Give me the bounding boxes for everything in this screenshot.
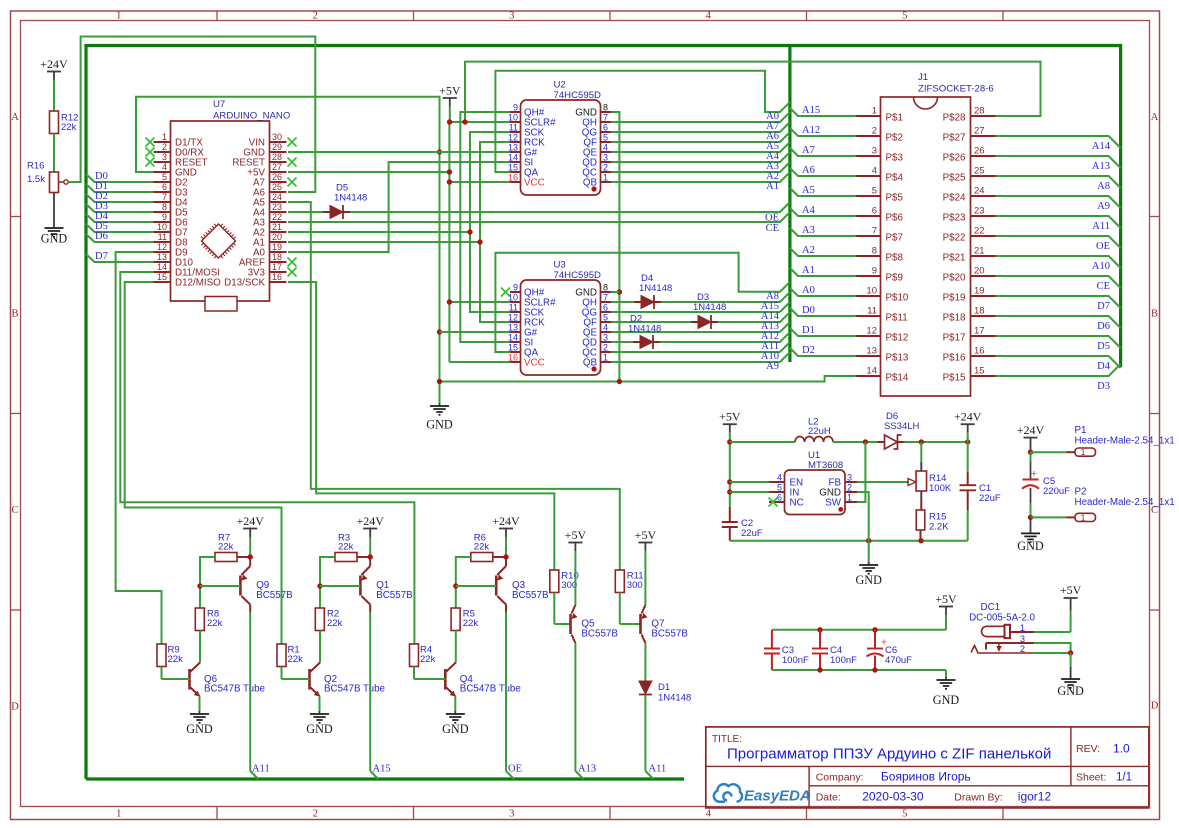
svg-text:BC557B: BC557B bbox=[256, 590, 293, 601]
svg-text:5: 5 bbox=[777, 483, 782, 493]
svg-text:8: 8 bbox=[603, 283, 608, 293]
svg-text:D13/SCK: D13/SCK bbox=[224, 278, 265, 289]
svg-text:22k: 22k bbox=[218, 542, 234, 553]
svg-text:BC557B: BC557B bbox=[651, 629, 688, 640]
svg-text:1: 1 bbox=[162, 132, 167, 142]
svg-text:3: 3 bbox=[603, 153, 608, 163]
svg-text:3: 3 bbox=[1020, 634, 1025, 644]
svg-text:11: 11 bbox=[158, 232, 167, 242]
svg-text:14: 14 bbox=[866, 366, 877, 377]
svg-text:U2: U2 bbox=[554, 80, 566, 91]
svg-text:1: 1 bbox=[1081, 447, 1086, 457]
svg-text:21: 21 bbox=[272, 222, 282, 232]
svg-text:Header-Male-2.54_1x1: Header-Male-2.54_1x1 bbox=[1075, 436, 1175, 447]
svg-text:27: 27 bbox=[974, 126, 985, 137]
svg-text:A1: A1 bbox=[766, 181, 779, 192]
svg-text:igor12: igor12 bbox=[1018, 790, 1052, 804]
svg-text:74HC595D: 74HC595D bbox=[554, 270, 602, 281]
svg-text:BC557B: BC557B bbox=[376, 590, 413, 601]
svg-text:Drawn By:: Drawn By: bbox=[954, 792, 1002, 804]
svg-text:+: + bbox=[1031, 468, 1037, 480]
svg-text:22uF: 22uF bbox=[741, 528, 763, 539]
svg-text:D5: D5 bbox=[1097, 341, 1110, 352]
svg-text:P1: P1 bbox=[1075, 425, 1087, 436]
svg-text:P$10: P$10 bbox=[886, 293, 909, 304]
svg-text:7: 7 bbox=[162, 192, 167, 202]
svg-text:P$7: P$7 bbox=[886, 233, 903, 244]
svg-text:1: 1 bbox=[872, 106, 877, 117]
svg-text:5: 5 bbox=[902, 809, 907, 820]
svg-text:U3: U3 bbox=[554, 260, 566, 271]
svg-text:P$26: P$26 bbox=[943, 153, 966, 164]
svg-text:2: 2 bbox=[313, 11, 318, 22]
svg-text:74HC595D: 74HC595D bbox=[554, 90, 602, 101]
svg-text:3: 3 bbox=[872, 146, 877, 157]
svg-text:19: 19 bbox=[974, 286, 985, 297]
svg-text:A2: A2 bbox=[802, 245, 815, 256]
svg-text:24: 24 bbox=[272, 192, 282, 202]
svg-text:12: 12 bbox=[157, 242, 167, 252]
svg-text:16: 16 bbox=[508, 353, 518, 363]
svg-text:P$5: P$5 bbox=[886, 193, 904, 204]
svg-text:13: 13 bbox=[508, 143, 518, 153]
svg-text:P$3: P$3 bbox=[886, 153, 904, 164]
svg-text:3: 3 bbox=[509, 11, 514, 22]
svg-text:D4: D4 bbox=[1097, 361, 1111, 372]
svg-text:A0: A0 bbox=[802, 285, 815, 296]
svg-text:A7: A7 bbox=[802, 145, 815, 156]
svg-text:1.5k: 1.5k bbox=[27, 174, 45, 185]
svg-text:17: 17 bbox=[974, 326, 985, 337]
svg-text:P$15: P$15 bbox=[943, 373, 966, 384]
svg-text:22: 22 bbox=[272, 212, 282, 222]
svg-text:DC-005-5A-2.0: DC-005-5A-2.0 bbox=[969, 613, 1035, 624]
svg-text:OE: OE bbox=[1096, 241, 1110, 252]
svg-text:7: 7 bbox=[872, 226, 877, 237]
svg-text:2: 2 bbox=[872, 126, 877, 137]
svg-text:16: 16 bbox=[272, 272, 282, 282]
svg-text:1N4148: 1N4148 bbox=[658, 693, 691, 704]
svg-text:2.2K: 2.2K bbox=[929, 522, 949, 533]
svg-text:P$11: P$11 bbox=[886, 313, 908, 324]
svg-text:10: 10 bbox=[157, 222, 167, 232]
svg-text:A10: A10 bbox=[1092, 261, 1110, 272]
svg-text:10: 10 bbox=[508, 113, 518, 123]
svg-text:10: 10 bbox=[508, 293, 518, 303]
svg-text:100K: 100K bbox=[929, 483, 952, 494]
svg-text:P$19: P$19 bbox=[943, 293, 966, 304]
svg-text:B: B bbox=[1151, 309, 1158, 320]
svg-text:20: 20 bbox=[272, 232, 282, 242]
svg-text:A4: A4 bbox=[802, 205, 816, 216]
svg-text:8: 8 bbox=[872, 246, 877, 257]
svg-text:J1: J1 bbox=[918, 72, 928, 83]
svg-text:P$14: P$14 bbox=[886, 373, 909, 384]
svg-text:+5V: +5V bbox=[935, 592, 957, 606]
svg-text:A15: A15 bbox=[373, 764, 391, 775]
svg-text:P$9: P$9 bbox=[886, 273, 903, 284]
svg-text:D7: D7 bbox=[1097, 301, 1110, 312]
svg-text:9: 9 bbox=[513, 283, 518, 293]
svg-text:+24V: +24V bbox=[356, 514, 384, 528]
svg-text:A13: A13 bbox=[1092, 161, 1110, 172]
svg-text:12: 12 bbox=[508, 313, 518, 323]
svg-text:22k: 22k bbox=[327, 618, 343, 629]
svg-text:12: 12 bbox=[508, 133, 518, 143]
svg-text:220uF: 220uF bbox=[1043, 486, 1070, 497]
svg-text:22: 22 bbox=[974, 226, 985, 237]
svg-text:U7: U7 bbox=[213, 99, 225, 110]
svg-text:A6: A6 bbox=[802, 165, 815, 176]
svg-text:25: 25 bbox=[974, 166, 985, 177]
svg-text:D3: D3 bbox=[1097, 381, 1110, 392]
svg-text:Company:: Company: bbox=[816, 772, 864, 784]
svg-text:5: 5 bbox=[162, 172, 167, 182]
svg-text:P$27: P$27 bbox=[943, 133, 966, 144]
svg-text:P$16: P$16 bbox=[943, 353, 966, 364]
svg-text:A15: A15 bbox=[802, 105, 820, 116]
svg-text:15: 15 bbox=[974, 366, 985, 377]
svg-text:P$8: P$8 bbox=[886, 253, 904, 264]
svg-text:10: 10 bbox=[866, 286, 877, 297]
svg-text:6: 6 bbox=[162, 182, 167, 192]
svg-text:4: 4 bbox=[603, 323, 608, 333]
svg-text:NC: NC bbox=[790, 498, 804, 509]
svg-text:9: 9 bbox=[872, 266, 877, 277]
svg-text:BC547B Tube: BC547B Tube bbox=[460, 684, 522, 695]
svg-text:22k: 22k bbox=[168, 654, 184, 665]
svg-text:4: 4 bbox=[706, 11, 712, 22]
svg-text:GND: GND bbox=[306, 722, 333, 736]
svg-text:+24V: +24V bbox=[1017, 423, 1045, 437]
svg-text:25: 25 bbox=[272, 182, 282, 192]
svg-text:13: 13 bbox=[508, 323, 518, 333]
svg-text:29: 29 bbox=[272, 142, 282, 152]
svg-text:D6: D6 bbox=[95, 231, 108, 242]
svg-text:8: 8 bbox=[603, 103, 608, 113]
svg-text:A: A bbox=[1151, 112, 1159, 123]
svg-text:300: 300 bbox=[627, 580, 643, 591]
svg-text:A11: A11 bbox=[1092, 221, 1110, 232]
svg-text:22uH: 22uH bbox=[808, 426, 831, 437]
svg-text:1/1: 1/1 bbox=[1116, 772, 1132, 784]
svg-text:B: B bbox=[11, 309, 18, 320]
svg-text:GND: GND bbox=[855, 573, 882, 587]
svg-text:11: 11 bbox=[509, 303, 518, 313]
svg-text:+24V: +24V bbox=[236, 514, 264, 528]
svg-text:2: 2 bbox=[603, 163, 608, 173]
svg-text:14: 14 bbox=[508, 333, 518, 343]
svg-text:100nF: 100nF bbox=[782, 655, 809, 666]
svg-text:+5V: +5V bbox=[719, 410, 741, 424]
svg-text:100nF: 100nF bbox=[830, 655, 857, 666]
svg-text:5: 5 bbox=[603, 313, 608, 323]
svg-text:A9: A9 bbox=[766, 361, 779, 372]
svg-text:A11: A11 bbox=[649, 764, 667, 775]
svg-text:4: 4 bbox=[706, 809, 712, 820]
svg-text:A1: A1 bbox=[802, 265, 815, 276]
svg-text:D12/MISO: D12/MISO bbox=[175, 278, 221, 289]
svg-text:14: 14 bbox=[157, 262, 167, 272]
svg-text:2: 2 bbox=[847, 483, 852, 493]
svg-text:27: 27 bbox=[272, 162, 282, 172]
svg-text:5: 5 bbox=[872, 186, 877, 197]
svg-text:P$18: P$18 bbox=[943, 313, 966, 324]
svg-text:BC557B: BC557B bbox=[512, 590, 549, 601]
svg-text:23: 23 bbox=[272, 202, 282, 212]
svg-text:2: 2 bbox=[162, 142, 167, 152]
svg-text:EasyEDA: EasyEDA bbox=[744, 788, 811, 805]
svg-text:470uF: 470uF bbox=[885, 655, 912, 666]
svg-text:REV:: REV: bbox=[1076, 743, 1100, 755]
svg-text:D7: D7 bbox=[95, 251, 108, 262]
svg-text:18: 18 bbox=[272, 252, 282, 262]
svg-text:D1: D1 bbox=[802, 325, 815, 336]
svg-text:26: 26 bbox=[974, 146, 985, 157]
svg-text:12: 12 bbox=[866, 326, 877, 337]
svg-text:SS34LH: SS34LH bbox=[884, 421, 920, 432]
svg-text:1: 1 bbox=[847, 493, 852, 503]
svg-text:6: 6 bbox=[603, 123, 608, 133]
svg-text:2020-03-30: 2020-03-30 bbox=[862, 790, 924, 804]
svg-text:GND: GND bbox=[1057, 684, 1084, 698]
svg-text:22k: 22k bbox=[474, 542, 490, 553]
svg-text:D: D bbox=[1151, 701, 1159, 712]
svg-text:3: 3 bbox=[509, 809, 514, 820]
svg-text:1.0: 1.0 bbox=[1113, 742, 1130, 756]
svg-text:BC557B: BC557B bbox=[581, 629, 618, 640]
svg-text:MT3608: MT3608 bbox=[808, 460, 843, 471]
svg-text:17: 17 bbox=[272, 262, 282, 272]
svg-text:GND: GND bbox=[1017, 539, 1044, 553]
svg-text:11: 11 bbox=[509, 123, 518, 133]
svg-text:13: 13 bbox=[866, 346, 877, 357]
svg-text:6: 6 bbox=[603, 303, 608, 313]
svg-text:ZIFSOCKET-28-6: ZIFSOCKET-28-6 bbox=[918, 84, 994, 95]
svg-text:1: 1 bbox=[116, 809, 121, 820]
svg-text:1N4148: 1N4148 bbox=[639, 283, 672, 294]
svg-text:22k: 22k bbox=[61, 122, 77, 133]
svg-text:4: 4 bbox=[872, 166, 877, 177]
svg-text:30: 30 bbox=[272, 132, 282, 142]
svg-text:5: 5 bbox=[902, 11, 907, 22]
svg-text:22k: 22k bbox=[288, 654, 304, 665]
svg-text:P$12: P$12 bbox=[886, 333, 909, 344]
svg-text:A12: A12 bbox=[802, 125, 820, 136]
svg-text:18: 18 bbox=[974, 306, 985, 317]
svg-text:1: 1 bbox=[1020, 623, 1025, 633]
svg-text:4: 4 bbox=[777, 473, 782, 483]
svg-text:22k: 22k bbox=[338, 542, 354, 553]
svg-text:28: 28 bbox=[974, 106, 985, 117]
svg-text:P$20: P$20 bbox=[943, 273, 966, 284]
svg-text:1: 1 bbox=[603, 173, 608, 183]
svg-text:+24V: +24V bbox=[40, 57, 68, 71]
svg-text:VCC: VCC bbox=[524, 358, 545, 369]
svg-text:6: 6 bbox=[872, 206, 877, 217]
svg-text:VCC: VCC bbox=[524, 178, 545, 189]
svg-text:7: 7 bbox=[603, 113, 608, 123]
svg-text:Программатор ППЗУ Ардуино с ZI: Программатор ППЗУ Ардуино с ZIF панелько… bbox=[727, 746, 1051, 763]
svg-text:15: 15 bbox=[508, 343, 518, 353]
svg-text:GND: GND bbox=[41, 232, 68, 246]
svg-text:OE: OE bbox=[508, 764, 522, 775]
svg-text:Sheet:: Sheet: bbox=[1076, 772, 1106, 784]
svg-text:22k: 22k bbox=[463, 618, 479, 629]
svg-text:22k: 22k bbox=[207, 618, 223, 629]
svg-text:6: 6 bbox=[777, 493, 782, 503]
svg-text:14: 14 bbox=[508, 153, 518, 163]
svg-text:ARDUINO_NANO: ARDUINO_NANO bbox=[213, 111, 290, 122]
svg-text:P$6: P$6 bbox=[886, 213, 904, 224]
svg-text:CE: CE bbox=[766, 223, 779, 234]
svg-text:GND: GND bbox=[442, 722, 469, 736]
svg-text:21: 21 bbox=[974, 246, 985, 257]
svg-text:2: 2 bbox=[1020, 644, 1025, 654]
svg-text:P$22: P$22 bbox=[943, 233, 966, 244]
svg-text:22uF: 22uF bbox=[979, 493, 1001, 504]
svg-text:P2: P2 bbox=[1075, 487, 1087, 498]
svg-text:P$2: P$2 bbox=[886, 133, 903, 144]
svg-text:24: 24 bbox=[974, 186, 985, 197]
svg-text:D1: D1 bbox=[658, 682, 670, 693]
svg-text:2: 2 bbox=[603, 343, 608, 353]
svg-text:5: 5 bbox=[603, 133, 608, 143]
svg-text:22k: 22k bbox=[420, 654, 436, 665]
svg-text:16: 16 bbox=[508, 173, 518, 183]
svg-text:3: 3 bbox=[847, 473, 852, 483]
svg-text:15: 15 bbox=[508, 163, 518, 173]
svg-text:A: A bbox=[11, 112, 19, 123]
svg-text:Бояринов Игорь: Бояринов Игорь bbox=[881, 770, 971, 784]
svg-text:2: 2 bbox=[313, 809, 318, 820]
svg-text:P$1: P$1 bbox=[886, 113, 903, 124]
svg-text:DC1: DC1 bbox=[981, 602, 1001, 613]
svg-text:+5V: +5V bbox=[565, 528, 587, 542]
svg-text:A13: A13 bbox=[578, 764, 596, 775]
svg-text:BC547B Tube: BC547B Tube bbox=[324, 684, 386, 695]
svg-text:9: 9 bbox=[162, 212, 167, 222]
svg-text:3: 3 bbox=[162, 152, 167, 162]
svg-text:A8: A8 bbox=[1097, 181, 1110, 192]
svg-text:D0: D0 bbox=[802, 305, 815, 316]
svg-text:7: 7 bbox=[603, 293, 608, 303]
svg-text:TITLE:: TITLE: bbox=[712, 734, 742, 745]
svg-text:28: 28 bbox=[272, 152, 282, 162]
svg-text:D: D bbox=[11, 702, 19, 713]
svg-text:GND: GND bbox=[933, 693, 960, 707]
svg-text:P$4: P$4 bbox=[886, 173, 904, 184]
svg-text:13: 13 bbox=[157, 252, 167, 262]
svg-text:P$21: P$21 bbox=[943, 253, 966, 264]
svg-text:1: 1 bbox=[603, 353, 608, 363]
svg-text:+24V: +24V bbox=[954, 410, 982, 424]
svg-text:11: 11 bbox=[867, 306, 877, 317]
svg-text:CE: CE bbox=[1097, 281, 1110, 292]
svg-text:3: 3 bbox=[603, 333, 608, 343]
svg-text:4: 4 bbox=[162, 162, 167, 172]
svg-text:4: 4 bbox=[603, 143, 608, 153]
svg-text:26: 26 bbox=[272, 172, 282, 182]
svg-text:P$25: P$25 bbox=[943, 173, 966, 184]
svg-text:+24V: +24V bbox=[492, 514, 520, 528]
svg-text:D6: D6 bbox=[1097, 321, 1110, 332]
svg-text:19: 19 bbox=[272, 242, 282, 252]
svg-text:R16: R16 bbox=[27, 161, 44, 172]
svg-text:P$24: P$24 bbox=[943, 193, 966, 204]
svg-text:23: 23 bbox=[974, 206, 985, 217]
svg-text:16: 16 bbox=[974, 346, 985, 357]
svg-text:SW: SW bbox=[825, 498, 842, 509]
svg-text:P$17: P$17 bbox=[943, 333, 966, 344]
svg-text:A3: A3 bbox=[802, 225, 815, 236]
svg-text:Header-Male-2.54_1x1: Header-Male-2.54_1x1 bbox=[1075, 497, 1175, 508]
svg-text:1N4148: 1N4148 bbox=[334, 193, 367, 204]
svg-text:+5V: +5V bbox=[1060, 583, 1082, 597]
svg-text:A14: A14 bbox=[1092, 141, 1111, 152]
svg-text:+5V: +5V bbox=[439, 84, 461, 98]
svg-text:A11: A11 bbox=[252, 764, 270, 775]
svg-text:+5V: +5V bbox=[635, 528, 657, 542]
svg-text:9: 9 bbox=[513, 103, 518, 113]
svg-text:D2: D2 bbox=[802, 345, 815, 356]
svg-text:1N4148: 1N4148 bbox=[628, 324, 661, 335]
svg-text:GND: GND bbox=[426, 418, 453, 432]
svg-text:8: 8 bbox=[162, 202, 167, 212]
svg-text:Date:: Date: bbox=[816, 792, 841, 804]
svg-text:1N4148: 1N4148 bbox=[693, 302, 726, 313]
svg-text:GND: GND bbox=[186, 722, 213, 736]
svg-text:BC547B Tube: BC547B Tube bbox=[204, 684, 266, 695]
svg-text:A9: A9 bbox=[1097, 201, 1110, 212]
svg-text:A5: A5 bbox=[802, 185, 815, 196]
svg-text:P$13: P$13 bbox=[886, 353, 909, 364]
svg-text:1: 1 bbox=[1081, 512, 1086, 522]
svg-text:1: 1 bbox=[116, 11, 121, 22]
svg-text:P$28: P$28 bbox=[943, 113, 966, 124]
svg-text:C: C bbox=[11, 505, 18, 516]
svg-text:OE: OE bbox=[765, 213, 779, 224]
svg-text:20: 20 bbox=[974, 266, 985, 277]
svg-text:15: 15 bbox=[157, 272, 167, 282]
svg-text:P$23: P$23 bbox=[943, 213, 966, 224]
